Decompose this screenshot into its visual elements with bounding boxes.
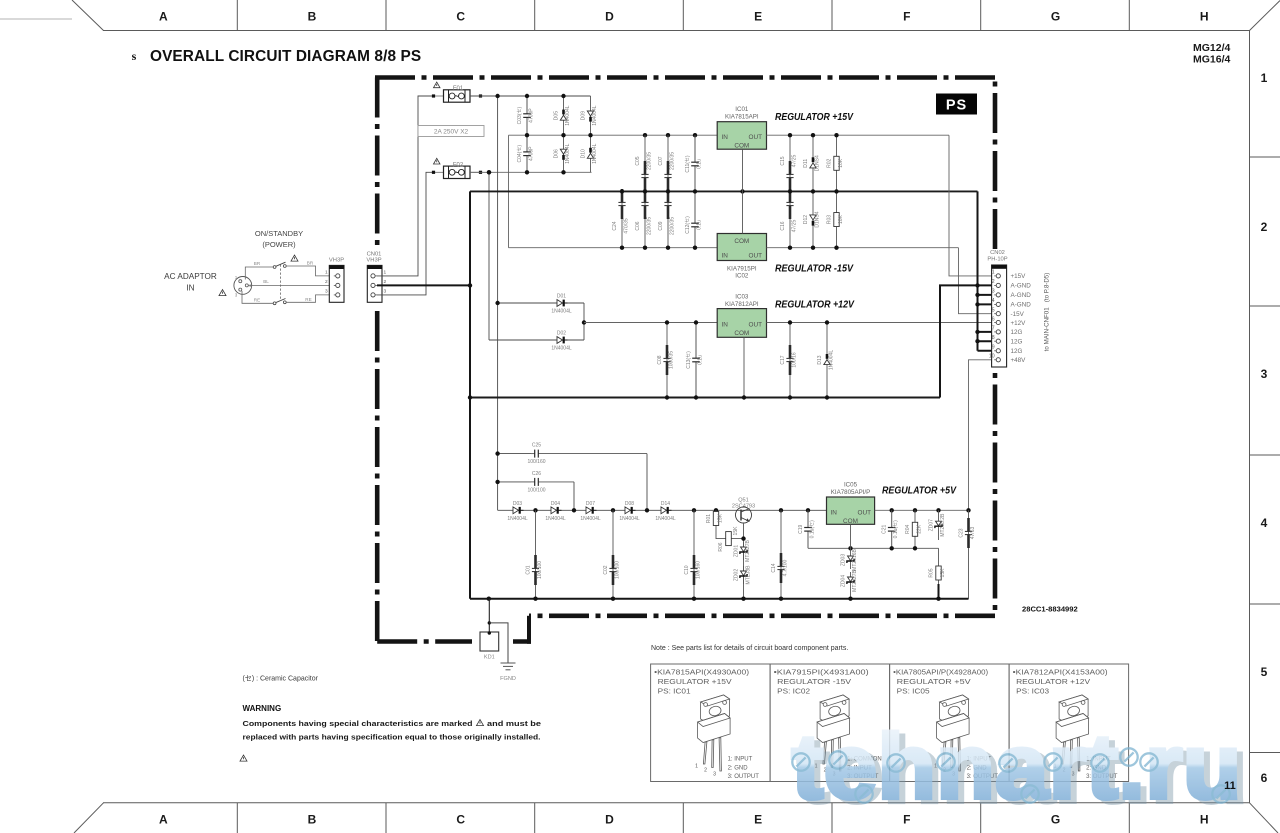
svg-text:KIA7805API/P: KIA7805API/P (831, 489, 871, 496)
svg-text:3: 3 (713, 772, 716, 778)
svg-text:C25: C25 (532, 443, 541, 449)
diode D08 (619, 501, 640, 522)
junction CN01 pin2 on trunk (468, 283, 472, 287)
svg-text:ZD03: ZD03 (841, 554, 847, 566)
drawing number 28CC1-8834992 (1022, 605, 1078, 614)
svg-text:11: 11 (1224, 780, 1236, 792)
svg-text:REGULATOR +5V: REGULATOR +5V (897, 677, 971, 686)
svg-text:WARNING: WARNING (243, 704, 282, 713)
capacitor C10 (684, 510, 702, 598)
svg-text:F: F (903, 10, 910, 24)
page number 11 placeholder - drawn later above watermark (0, 0, 1, 1)
label AC ADAPTOR IN (164, 272, 217, 293)
svg-text:s: s (132, 49, 137, 63)
svg-text:C05: C05 (635, 156, 641, 165)
svg-text:REGULATOR +5V: REGULATOR +5V (882, 486, 957, 497)
diode D10 (581, 135, 599, 172)
svg-text:1N4004L: 1N4004L (551, 309, 572, 315)
svg-text:FGND: FGND (500, 676, 516, 682)
svg-text:1N4004L: 1N4004L (551, 346, 572, 352)
svg-text:R03: R03 (827, 215, 833, 224)
A-GND rail y=191.4 (470, 190, 978, 192)
svg-text:•KIA7805API/P(X4928A00): •KIA7805API/P(X4928A00) (893, 668, 988, 677)
svg-text:(POWER): (POWER) (262, 240, 296, 249)
diode D03 (507, 501, 528, 522)
svg-text:C24: C24 (612, 221, 618, 230)
IC01 COM to A-GND rail (742, 149, 744, 191)
voltage regulator IC05 (827, 497, 875, 525)
negative raw rail y=247.7 to IC02 (509, 247, 718, 249)
svg-text:MTZJ27B: MTZJ27B (745, 540, 751, 562)
svg-text:MTZJ16B: MTZJ16B (852, 549, 858, 571)
svg-text:C16: C16 (780, 221, 786, 230)
svg-text:Note : See parts list for deta: Note : See parts list for details of cir… (651, 645, 848, 652)
svg-text:ON/STANDBY: ON/STANDBY (255, 229, 303, 238)
svg-text:REGULATOR -15V: REGULATOR -15V (777, 677, 851, 686)
svg-text:ZD04: ZD04 (841, 575, 847, 587)
svg-text:•KIA7915PI(X4931A00): •KIA7915PI(X4931A00) (774, 668, 869, 677)
junctions on 12G return rail (468, 395, 829, 399)
ground trunk vertical x=470 (469, 191, 471, 598)
mid rail drop x=508.5 to negative rail (508, 135, 510, 248)
capacitor C12 (685, 191, 703, 247)
svg-text:RE: RE (254, 298, 260, 303)
svg-text:C11(セ): C11(セ) (685, 155, 691, 172)
+15V feed to CN02 pin1 (949, 135, 996, 276)
junctions on +5V out rail (890, 508, 971, 512)
capacitor C17 (780, 323, 798, 398)
junctions on +12V out rail (788, 320, 829, 324)
svg-text:A-GND: A-GND (1011, 283, 1032, 290)
svg-text:H: H (1200, 10, 1209, 24)
diode D02 (551, 331, 572, 352)
warning heading (243, 704, 282, 713)
junctions on +15V out rail (788, 133, 839, 137)
capacitor C24 (612, 189, 630, 248)
svg-text:REGULATOR +15V: REGULATOR +15V (658, 677, 732, 686)
svg-text:D03: D03 (513, 501, 522, 507)
svg-text:D: D (605, 813, 614, 827)
label to MAIN-CNF01 (to P.8-D5) rotated (1044, 273, 1051, 352)
fuse F02 (432, 166, 482, 178)
capacitor C03 (517, 96, 535, 135)
svg-text:COM: COM (843, 518, 858, 525)
parts list note (651, 645, 848, 652)
svg-text:KIA7812API: KIA7812API (725, 301, 759, 308)
labels IC01 KIA7815API (725, 106, 759, 121)
svg-text:1: INPUT: 1: INPUT (728, 757, 753, 763)
svg-text:470/35: 470/35 (624, 218, 630, 234)
svg-text:OUT: OUT (858, 510, 872, 517)
charge pump rail y=510.3 (498, 509, 827, 511)
svg-text:7: 7 (992, 326, 995, 332)
capacitor C07 (658, 135, 676, 191)
svg-text:1N4004L: 1N4004L (655, 516, 676, 522)
capacitor C15 (780, 135, 798, 191)
svg-text:Components having special char: Components having special characteristic… (243, 719, 473, 728)
12G return rail y=397.5 (470, 397, 940, 399)
svg-text:3: 3 (992, 289, 995, 295)
spark killer KD1 (480, 632, 499, 661)
svg-text:6: 6 (992, 316, 995, 322)
svg-text:3: 3 (383, 289, 386, 295)
svg-text:ZD02: ZD02 (734, 569, 740, 581)
junctions on AC drop for pump caps (495, 451, 499, 484)
wire jack pin1 to switch top pole (245, 267, 273, 280)
svg-text:1: 1 (695, 764, 698, 770)
svg-text:BL: BL (263, 279, 269, 284)
R05 thick lead to 48G bus (938, 584, 940, 599)
svg-text:0.1u: 0.1u (697, 159, 703, 169)
svg-text:1N4004L: 1N4004L (545, 516, 566, 522)
svg-text:12G: 12G (1011, 339, 1023, 346)
fuse F01 (432, 90, 482, 102)
power switch SW1 top pole (273, 262, 286, 268)
voltage regulator IC01 (717, 122, 766, 150)
svg-text:15K: 15K (733, 526, 739, 536)
PS block dash-dot border (375, 78, 995, 644)
svg-text:REGULATOR +12V: REGULATOR +12V (1016, 677, 1090, 686)
IC05 OUT rail +5V (875, 509, 969, 511)
svg-text:47/25: 47/25 (792, 155, 798, 168)
svg-text:PS: IC01: PS: IC01 (658, 687, 691, 696)
voltage regulator IC03 (717, 309, 766, 338)
svg-text:1N4004L: 1N4004L (592, 105, 598, 126)
svg-text:2200/35: 2200/35 (670, 217, 676, 235)
AC line A drop x=497.6 (497, 96, 499, 510)
svg-text:R06: R06 (718, 542, 724, 551)
svg-text:C01: C01 (526, 565, 532, 574)
svg-text:3: 3 (325, 289, 328, 295)
svg-text:to MAIN-CNF01 (to P.8-D5): to MAIN-CNF01 (to P.8-D5) (1044, 273, 1051, 352)
capacitor C05 (635, 135, 653, 191)
wire CN01 pin1 to fuse F01 (377, 96, 433, 276)
svg-text:KD1: KD1 (484, 655, 495, 661)
capacitor C02 (603, 510, 621, 598)
junctions on KD1 wire (488, 621, 491, 635)
svg-text:KIA7815API: KIA7815API (725, 114, 759, 121)
package box PS: IC05 (893, 668, 998, 781)
capacitor C06 (635, 189, 653, 248)
svg-text:C07: C07 (658, 156, 664, 165)
svg-text:15K: 15K (718, 513, 724, 523)
svg-text:22K: 22K (917, 524, 923, 534)
svg-text:47/25: 47/25 (792, 220, 798, 233)
svg-text:2: 2 (992, 279, 995, 285)
svg-text:3: OUTPUT: 3: OUTPUT (728, 774, 760, 780)
svg-text:10K: 10K (838, 158, 844, 168)
zener ZD07 (929, 510, 947, 540)
A-GND/12G bus to CN02 x=977.5 (977, 191, 979, 350)
svg-text:E: E (754, 10, 762, 24)
zener ZD04 (841, 570, 859, 592)
regulator package legend boxes (651, 664, 1129, 782)
-15V feed to CN02 pin5 (959, 248, 997, 314)
diode D05 (554, 96, 572, 135)
svg-text:G: G (1051, 10, 1060, 24)
wire to frame ground (489, 623, 508, 663)
svg-text:D09: D09 (581, 111, 587, 120)
junctions on AC line A rail (495, 94, 565, 98)
wire switch bottom to VH3P pin3 (286, 295, 334, 302)
svg-text:2SC4793: 2SC4793 (732, 503, 755, 509)
svg-text:MTZJ27B: MTZJ27B (852, 570, 858, 592)
svg-text:8: 8 (992, 335, 995, 341)
junctions on CN02 ground bus (975, 283, 979, 343)
CN02 pin2 tie to ground trunk x=940 (940, 285, 996, 397)
pump cap C25 row wire (498, 453, 531, 455)
svg-text:4700P: 4700P (529, 108, 535, 123)
svg-text:2200/35: 2200/35 (647, 152, 653, 170)
svg-text:D14: D14 (661, 501, 670, 507)
CN02 ground pin stubs (978, 295, 997, 351)
svg-text:D1NS4: D1NS4 (815, 211, 821, 227)
svg-text:0.1u(セ): 0.1u(セ) (810, 520, 816, 538)
svg-text:100/160: 100/160 (527, 459, 545, 465)
svg-text:C09: C09 (658, 221, 664, 230)
IC03 COM to 12G rail (743, 337, 745, 397)
svg-text:C10: C10 (684, 565, 690, 574)
svg-text:C02: C02 (603, 565, 609, 574)
svg-text:MG12/4: MG12/4 (1193, 42, 1231, 54)
junctions on charge pump rail (533, 508, 810, 512)
svg-text:D1NS4: D1NS4 (815, 155, 821, 171)
svg-text:IC05: IC05 (844, 482, 858, 489)
svg-text:5: 5 (992, 308, 995, 314)
watermark tehnart.ru (792, 716, 1248, 822)
svg-text:9: 9 (992, 345, 995, 351)
voltage regulator IC02 (717, 234, 766, 261)
svg-text:1N4004L: 1N4004L (507, 516, 528, 522)
package box PS: IC02 (774, 668, 882, 781)
resistor R01 (706, 510, 724, 527)
resistor R05 (929, 548, 947, 586)
transistor Q51 2SC4793 (732, 498, 755, 524)
capacitor C26 (527, 471, 574, 494)
D01 D02 output join x=584 (583, 303, 585, 340)
IC03 OUT rail +12V to CN02 pin6 (767, 322, 997, 324)
C26 right drop to pump rail (573, 482, 575, 510)
svg-text:2200/35: 2200/35 (647, 217, 653, 235)
svg-text:BR: BR (254, 261, 261, 266)
svg-text:(セ) : Ceramic Capacitor: (セ) : Ceramic Capacitor (243, 675, 319, 683)
raw DC mid rail y=135.2 to IC01 IN (509, 134, 718, 136)
svg-text:COM: COM (734, 143, 749, 150)
svg-text:REGULATOR +12V: REGULATOR +12V (775, 300, 855, 311)
label F01 with warning triangle (434, 82, 464, 92)
connector CN01 VH3P (366, 251, 386, 302)
svg-text:10: 10 (989, 354, 995, 360)
labels IC05 KIA7805API/P (831, 482, 871, 497)
C25 right drop to pump rail (646, 454, 648, 511)
+12V raw rail y=322.5 (584, 322, 717, 324)
svg-text:C: C (456, 10, 465, 24)
fuse rating box 2A 250V X2 (418, 126, 484, 137)
resistor R02 (827, 135, 845, 191)
junction D01/D02 tap points (487, 170, 586, 325)
svg-text:C21: C21 (882, 525, 888, 534)
svg-text:MTZJ8.2B: MTZJ8.2B (940, 513, 946, 537)
svg-text:+12V: +12V (1011, 320, 1027, 327)
svg-text:10K: 10K (838, 214, 844, 224)
svg-text:2: 2 (325, 279, 328, 285)
diode D14 (655, 501, 676, 522)
diode D13 (817, 323, 835, 398)
zener ZD01 (740, 540, 751, 562)
svg-text:A: A (159, 813, 168, 827)
capacitor C23 (959, 510, 977, 598)
svg-text:OUT: OUT (749, 134, 763, 141)
wire CN01 pin3 to fuse F02 (377, 172, 433, 295)
svg-text:A: A (159, 10, 168, 24)
svg-text:5: 5 (1261, 665, 1268, 679)
svg-text:1N4004L: 1N4004L (619, 516, 640, 522)
svg-text:12G: 12G (1011, 329, 1023, 336)
PS block name box (936, 94, 977, 115)
warning triangle near AC jack (219, 290, 226, 296)
wire CN01 pin2 ground feed to node V3 (377, 284, 470, 286)
svg-text:B: B (308, 10, 317, 24)
wire D02 input row (489, 339, 584, 341)
label ON/STANDBY (POWER) (255, 229, 303, 249)
svg-text:1: 1 (325, 270, 328, 276)
svg-text:IN: IN (722, 322, 729, 329)
svg-text:E: E (754, 813, 762, 827)
svg-text:C: C (456, 813, 465, 827)
svg-text:2200/35: 2200/35 (670, 152, 676, 170)
svg-text:C17: C17 (780, 355, 786, 364)
wire R01 to R06 to Q51 base (716, 528, 744, 539)
capacitor C16 (780, 189, 798, 248)
svg-text:2: 2 (383, 279, 386, 285)
svg-text:D13: D13 (817, 355, 823, 364)
svg-text:IN: IN (722, 253, 729, 260)
AC line B rail y=172.3 (470, 171, 592, 173)
svg-text:PS: IC03: PS: IC03 (1016, 687, 1049, 696)
capacitor C19 (798, 510, 816, 548)
label REGULATOR -15V (775, 264, 854, 275)
svg-text:0.1u: 0.1u (697, 220, 703, 230)
AC adaptor jack J1 (234, 275, 252, 298)
junctions on -15V out rail (788, 246, 839, 250)
connector VH3P (plug) (325, 258, 344, 303)
model numbers MG12/4 MG16/4 (1193, 42, 1231, 66)
svg-text:OVERALL CIRCUIT DIAGRAM 8/8 PS: OVERALL CIRCUIT DIAGRAM 8/8 PS (150, 48, 421, 65)
diode D12 (803, 191, 821, 247)
svg-text:0.1u: 0.1u (698, 355, 704, 365)
svg-text:F01: F01 (453, 86, 464, 92)
svg-text:1: 1 (1261, 71, 1268, 85)
svg-text:2: 2 (704, 768, 707, 774)
svg-text:4700P: 4700P (529, 146, 535, 161)
svg-text:1000/35: 1000/35 (669, 351, 675, 369)
svg-text:D12: D12 (803, 215, 809, 224)
svg-text:MTZJ3B: MTZJ3B (746, 565, 752, 585)
svg-text:4: 4 (992, 298, 995, 304)
svg-text:D11: D11 (803, 159, 809, 168)
svg-text:4: 4 (1261, 516, 1268, 530)
svg-text:COM: COM (734, 330, 749, 337)
+48V feed to CN02 pin10 (969, 360, 997, 511)
svg-text:2: 2 (1261, 220, 1268, 234)
svg-text:D08: D08 (625, 501, 634, 507)
svg-text:AC ADAPTOR: AC ADAPTOR (164, 272, 217, 281)
svg-text:R01: R01 (706, 514, 712, 523)
junctions on negative raw rail (620, 246, 697, 250)
svg-text:1N4004L: 1N4004L (565, 143, 571, 164)
svg-text:D07: D07 (586, 501, 595, 507)
junctions on +12V raw rail (665, 320, 698, 324)
svg-text:ZD01: ZD01 (734, 545, 740, 557)
svg-text:D06: D06 (554, 149, 560, 158)
label F02 with warning triangle (434, 158, 464, 168)
svg-text:100/160: 100/160 (696, 561, 702, 579)
svg-text:B: B (308, 813, 317, 827)
svg-text:and must be: and must be (487, 719, 541, 728)
capacitor C21 (882, 510, 900, 548)
svg-text:D05: D05 (554, 111, 560, 120)
IC05 COM drop (850, 524, 852, 551)
svg-text:D10: D10 (581, 149, 587, 158)
svg-text:C15: C15 (780, 156, 786, 165)
svg-text:1N4004L: 1N4004L (829, 350, 835, 371)
svg-text:0.1u(セ): 0.1u(セ) (893, 520, 899, 538)
switch gang dashed link (280, 265, 282, 302)
svg-text:D: D (605, 10, 614, 24)
label REGULATOR +15V (775, 112, 854, 123)
IC02 COM to A-GND rail (742, 191, 744, 233)
svg-text:47/63: 47/63 (970, 527, 976, 540)
svg-text:MG16/4: MG16/4 (1193, 54, 1231, 66)
svg-text:VH3P: VH3P (329, 258, 344, 264)
capacitor C13 (686, 323, 704, 398)
svg-text:D04: D04 (551, 501, 560, 507)
capacitor C09 (658, 189, 676, 248)
svg-text:1N4004L: 1N4004L (592, 143, 598, 164)
svg-text:PH-10P: PH-10P (987, 257, 1007, 263)
svg-text:C14: C14 (771, 563, 777, 572)
diode D06 (554, 135, 572, 172)
svg-text:PS: IC05: PS: IC05 (897, 687, 930, 696)
svg-text:28CC1-8834992: 28CC1-8834992 (1022, 605, 1078, 614)
svg-text:6: 6 (1261, 771, 1268, 785)
diode D07 (580, 501, 601, 522)
Q51 base/emitter drop to bus (743, 523, 745, 599)
svg-text:A-GND: A-GND (1011, 302, 1032, 309)
connector CN02 PH-10P (987, 250, 1007, 367)
diode D04 (545, 501, 566, 522)
svg-text:D01: D01 (557, 294, 566, 300)
labels IC03 KIA7812API (725, 294, 759, 309)
svg-text:C13(セ): C13(セ) (686, 351, 692, 369)
svg-text:OUT: OUT (749, 322, 763, 329)
svg-text:IN: IN (186, 284, 194, 293)
svg-text:OUT: OUT (749, 253, 763, 260)
frame ground symbol FGND (500, 663, 516, 682)
capacitor C08 (657, 323, 675, 398)
svg-text:PS: IC02: PS: IC02 (777, 687, 810, 696)
svg-text:•KIA7812API(X4153A00): •KIA7812API(X4153A00) (1013, 668, 1108, 677)
svg-text:1: 1 (992, 270, 995, 276)
svg-text:R04: R04 (905, 525, 911, 534)
wire switch top to VH3P pin1 (286, 266, 334, 276)
svg-text:COM: COM (734, 238, 749, 245)
pump cap C26 row wire (498, 481, 531, 483)
svg-text:D02: D02 (557, 331, 566, 337)
wire jack pin3 down and to switch bottom pole (242, 291, 273, 303)
zener ZD02 (734, 566, 748, 584)
svg-text:BR: BR (307, 261, 314, 266)
